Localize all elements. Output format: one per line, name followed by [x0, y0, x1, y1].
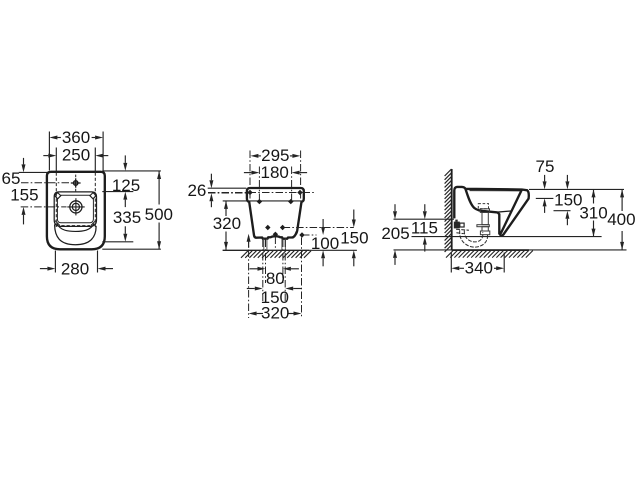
dimension 340 — [450, 252, 452, 273]
bolt lines left — [263, 239, 265, 250]
dimension 320 (below ground) — [259, 313, 263, 315]
extension line deck right — [529, 188, 624, 190]
extension line bowl rim top — [102, 191, 133, 193]
drain centerline vertical — [274, 237, 276, 251]
dash-dot level line 150 above floor — [283, 227, 354, 229]
tap hole symbol (plan) — [70, 201, 82, 213]
bidet body outline (plan view) — [47, 172, 105, 250]
extension dash-dot 150 right — [284, 240, 286, 304]
bottom corner diamond right (320) — [299, 232, 304, 237]
floor hatch (side view) — [446, 251, 533, 258]
svg-text:500: 500 — [145, 205, 173, 224]
svg-text:75: 75 — [536, 157, 555, 176]
svg-text:400: 400 — [607, 210, 635, 229]
dimension 310 — [593, 189, 595, 203]
ground extension right (front view) — [309, 249, 357, 251]
svg-text:310: 310 — [579, 203, 607, 222]
underside extension line — [412, 236, 602, 238]
front rim bottom line — [248, 200, 303, 202]
dimension 320 vertical — [225, 201, 227, 216]
dimension 150 (side) — [565, 181, 569, 189]
centerline through fixing hole (65 line) — [21, 182, 70, 184]
drain diamond right (80) — [280, 225, 285, 230]
svg-text:320: 320 — [261, 304, 289, 323]
dimension 75 — [543, 181, 547, 189]
hidden trap (dashed) — [460, 231, 488, 248]
dimension 65 — [19, 171, 47, 173]
bolt lines right — [281, 239, 283, 250]
spray nozzle stack — [477, 204, 490, 235]
svg-text:335: 335 — [113, 208, 141, 227]
drain diamond left (80) — [265, 225, 270, 230]
dimension 250 — [55, 148, 57, 172]
dimension 125 — [123, 163, 127, 171]
water inlet fitting at wall — [454, 222, 460, 229]
dimension 115 — [423, 211, 427, 219]
dash-dot level line 100 above floor — [302, 234, 317, 236]
svg-text:280: 280 — [61, 259, 89, 278]
dimension 280 — [54, 251, 56, 273]
extension line band bottom left — [223, 200, 248, 202]
extension line body bottom right — [102, 248, 161, 250]
bowl hidden bottom edge (dashed) — [61, 225, 90, 227]
rim corner facet bottom-left — [55, 221, 59, 225]
extension dash-dot 320 right — [301, 238, 303, 319]
dimension 400 — [621, 189, 623, 211]
dimension 180 — [258, 167, 260, 202]
svg-text:360: 360 — [62, 128, 90, 147]
extension line bowl front bottom — [102, 241, 133, 243]
fixing holes centerline (front) — [208, 192, 316, 194]
bidet front bottom wavy edge — [256, 236, 292, 239]
bidet front outline (pot shape) — [247, 188, 304, 238]
svg-text:180: 180 — [261, 163, 289, 182]
wall line — [451, 169, 453, 250]
dimension 360 — [48, 132, 50, 171]
svg-text:320: 320 — [213, 214, 241, 233]
dimension 500 — [158, 171, 160, 205]
bowl floor front line — [495, 211, 511, 212]
dimension 100 — [321, 227, 325, 235]
centerline through tap hole (155 line) — [21, 206, 67, 208]
bowl front inner lip curve — [57, 224, 94, 232]
fixing hole diamond right (180) — [288, 199, 293, 204]
dimension 80 (below ground) — [258, 267, 266, 271]
arrow at pot bottom-left fixing level — [247, 234, 251, 242]
bidet side profile outline — [454, 187, 529, 236]
ground hatch (front view) — [241, 251, 311, 258]
dimension 150 right (front view) — [352, 220, 356, 228]
svg-text:150: 150 — [340, 229, 368, 248]
fixing hole diamond left (180) — [257, 199, 262, 204]
dimension 205 — [393, 211, 397, 219]
inner bowl rim offset line — [57, 195, 93, 223]
extension dash-dot 80 left — [265, 240, 267, 284]
svg-text:26: 26 — [187, 181, 206, 200]
rim corner facet top-left — [55, 193, 61, 199]
svg-text:115: 115 — [411, 219, 438, 238]
extension line top edge right — [102, 170, 161, 172]
drain centerline diamond (center) — [273, 232, 278, 237]
svg-text:340: 340 — [465, 259, 493, 278]
svg-text:125: 125 — [112, 176, 140, 195]
dimension 295 — [249, 151, 251, 202]
dimension 335 — [123, 192, 127, 200]
svg-text:250: 250 — [62, 146, 90, 165]
extension dash-dot 150 left — [262, 240, 264, 304]
dimension 155 — [22, 207, 26, 215]
extension dash-dot 320 left — [248, 236, 250, 318]
dimension 26 — [208, 187, 247, 189]
fixing hole diamond left (295) — [247, 190, 252, 195]
svg-text:150: 150 — [554, 190, 582, 209]
inner bowl rim (plan) — [54, 192, 96, 227]
extension dash-dot 80 right — [282, 240, 284, 284]
dimension 150 (below ground) — [255, 287, 263, 291]
bowl front outer lip curve — [55, 225, 97, 245]
svg-text:80: 80 — [266, 269, 285, 288]
svg-text:205: 205 — [381, 224, 409, 243]
floor line (side view) — [394, 249, 627, 251]
rim corner facet top-right — [90, 193, 96, 199]
wall hatch — [445, 169, 452, 252]
svg-text:155: 155 — [10, 185, 38, 204]
fixing hole cross symbol (plan, top) — [74, 181, 78, 185]
rear underside extension line — [394, 218, 455, 220]
fixing hole diamond right (295) — [297, 190, 302, 195]
ground line (front view) — [223, 249, 309, 251]
rim corner facet bottom-right — [91, 221, 95, 225]
inner rim thin line (side) — [470, 190, 522, 192]
